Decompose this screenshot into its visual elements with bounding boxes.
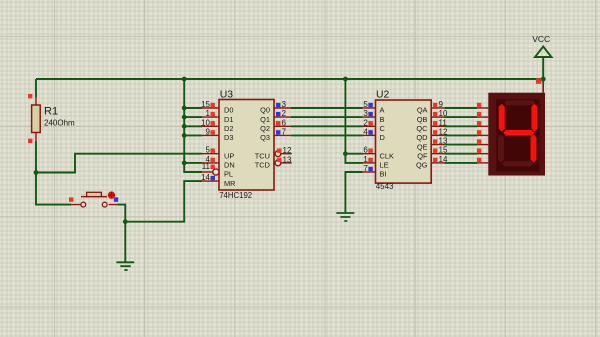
svg-text:3: 3 <box>363 109 368 118</box>
U3 pin 6 (Q2) <box>274 118 291 127</box>
U2 pin 9 (QA) <box>431 100 444 109</box>
wire LE branch <box>345 154 362 163</box>
svg-text:12: 12 <box>439 127 448 136</box>
svg-text:1: 1 <box>206 109 211 118</box>
svg-text:4543: 4543 <box>376 182 394 191</box>
U2 pin 10 (QB) <box>431 109 448 118</box>
label U3 <box>220 89 234 100</box>
label U2 <box>376 89 390 100</box>
display segment d (off) <box>502 161 533 166</box>
svg-text:5: 5 <box>363 100 368 109</box>
ground symbol GND2 below BI <box>336 213 354 221</box>
svg-text:QD: QD <box>416 133 427 142</box>
svg-text:1: 1 <box>363 155 368 164</box>
IC U3 74HC192 body <box>219 100 274 191</box>
svg-text:QA: QA <box>417 106 428 115</box>
wire MR to button junction <box>125 181 202 222</box>
svg-text:PL: PL <box>224 170 233 179</box>
svg-text:TCU: TCU <box>255 151 270 160</box>
svg-text:D2: D2 <box>224 124 233 133</box>
node rail-bus junction <box>182 77 187 82</box>
svg-text:6: 6 <box>282 118 287 127</box>
U3 pin 14 (MR) <box>201 173 219 182</box>
wire Q2 to C <box>291 125 363 127</box>
U2 pin 2 (C) <box>363 118 376 127</box>
U3 pin 13 (TCD, inverted) <box>275 155 292 165</box>
node bus-D1 <box>182 115 187 120</box>
svg-text:MR: MR <box>224 179 236 188</box>
svg-text:LE: LE <box>380 161 389 170</box>
wire Q0 to A <box>291 107 363 109</box>
wire QE to display e <box>444 144 477 146</box>
U2 pin 1 (LE) <box>363 155 376 164</box>
svg-text:9: 9 <box>206 127 211 136</box>
svg-text:R1: R1 <box>44 105 58 117</box>
U3 pin 9 (D3) <box>202 127 219 136</box>
display segment e (off) <box>498 134 504 162</box>
svg-text:10: 10 <box>439 109 448 118</box>
display pin a <box>477 103 488 108</box>
value 74HC192 <box>219 191 252 200</box>
svg-text:D3: D3 <box>224 133 233 142</box>
node bus-D3 <box>182 133 187 138</box>
wire data bus vertical from rail to PL <box>184 79 202 172</box>
display segment c (on) <box>531 134 537 162</box>
U2 pin 3 (B) <box>363 109 376 118</box>
U2 pin 6 (CLK) <box>363 146 376 155</box>
svg-text:QF: QF <box>417 151 428 160</box>
svg-text:7: 7 <box>282 127 287 136</box>
svg-text:QG: QG <box>416 161 428 170</box>
U2 pin 12 (QD) <box>431 127 448 136</box>
svg-text:11: 11 <box>202 162 211 171</box>
node CLK-LE junction <box>343 151 348 156</box>
display VCC pin (top) <box>536 78 543 92</box>
svg-text:Q0: Q0 <box>260 106 270 115</box>
svg-text:13: 13 <box>439 137 448 146</box>
wire R1 junction to UP pin <box>36 154 202 173</box>
U3 pin 5 (UP) <box>202 146 219 155</box>
display segment f (on) <box>499 104 505 132</box>
svg-text:DN: DN <box>224 161 235 170</box>
wire branch to DN <box>184 162 202 164</box>
svg-text:14: 14 <box>439 155 448 164</box>
svg-text:74HC192: 74HC192 <box>219 191 252 200</box>
wire QA to display a <box>444 107 477 109</box>
wire R1 top to rail corner <box>35 79 37 97</box>
display pin d <box>477 130 488 135</box>
svg-text:5: 5 <box>206 146 211 155</box>
U3 pin 10 (D2) <box>201 118 219 127</box>
U3 pin 1 (D1) <box>202 109 219 118</box>
wire QF to display f <box>444 153 477 155</box>
wire QD to display d <box>444 134 477 136</box>
svg-text:15: 15 <box>439 146 448 155</box>
svg-text:13: 13 <box>283 155 292 164</box>
node R1 bottom junction <box>34 170 39 175</box>
value 4543 <box>376 182 394 191</box>
svg-text:QB: QB <box>417 115 428 124</box>
node bus-D0 <box>182 106 187 111</box>
svg-text:U2: U2 <box>376 89 390 100</box>
U2 pin 11 (QC) <box>431 118 447 127</box>
wire QG to display g <box>444 162 477 164</box>
wire Q1 to B <box>291 116 363 118</box>
display pin c <box>477 121 488 126</box>
wire BI to ground <box>345 172 362 212</box>
value 240Ohm <box>44 119 75 128</box>
display segment a (off) <box>504 100 535 105</box>
svg-text:15: 15 <box>201 100 210 109</box>
svg-text:TCD: TCD <box>255 161 270 170</box>
wire branch to D1 <box>184 116 202 118</box>
resistor R1 <box>28 94 40 143</box>
wire R1 bottom vertical <box>36 141 71 205</box>
svg-text:UP: UP <box>224 151 234 160</box>
svg-text:2: 2 <box>282 109 287 118</box>
U2 pin 15 (QF) <box>431 146 448 155</box>
wire VCC symbol to rail and display pin <box>542 57 544 84</box>
display pin e <box>477 139 488 144</box>
wire Q3 to D <box>291 134 363 136</box>
U3 pin 2 (Q1) <box>274 109 291 118</box>
IC U2 4543 body <box>376 100 432 183</box>
svg-text:Q1: Q1 <box>260 115 270 124</box>
U2 pin 7 (BI) <box>363 164 376 173</box>
wire branch to D0 <box>184 107 202 109</box>
node button-ground junction <box>123 219 128 224</box>
U3 pin 7 (Q3) <box>274 127 291 136</box>
svg-text:12: 12 <box>283 146 292 155</box>
U3 pin 11 (PL, inverted) <box>202 162 219 175</box>
svg-text:Q3: Q3 <box>260 133 270 142</box>
svg-text:QE: QE <box>417 142 428 151</box>
U2 pin 13 (QE) <box>431 137 448 146</box>
label R1 <box>44 105 58 117</box>
node rail-VCC junction <box>541 77 546 82</box>
svg-text:2: 2 <box>363 118 368 127</box>
svg-text:Q2: Q2 <box>260 124 270 133</box>
svg-text:A: A <box>380 106 385 115</box>
U3 pin 12 (TCU, inverted) <box>275 146 292 156</box>
svg-text:4: 4 <box>363 127 368 136</box>
svg-text:D0: D0 <box>224 106 233 115</box>
svg-text:14: 14 <box>201 173 210 182</box>
U2 pin 14 (QG) <box>431 155 448 164</box>
svg-text:7: 7 <box>363 164 368 173</box>
svg-text:240Ohm: 240Ohm <box>44 119 75 128</box>
node bus-D2 <box>182 124 187 129</box>
display pin b <box>477 112 488 117</box>
svg-text:10: 10 <box>201 118 210 127</box>
svg-text:B: B <box>380 115 385 124</box>
wire branch to D3 <box>184 134 202 136</box>
push button switch <box>69 191 118 207</box>
U2 pin 5 (A) <box>363 100 376 109</box>
wire VCC top rail <box>36 78 543 80</box>
wire branch to D2 <box>184 125 202 127</box>
7-segment display body <box>488 93 545 176</box>
power symbol VCC <box>532 34 551 57</box>
node bus-DN <box>182 161 187 166</box>
display pin f <box>477 149 488 154</box>
display segment g (on) <box>503 130 534 136</box>
svg-text:QC: QC <box>416 124 428 133</box>
U3 pin 3 (Q0) <box>274 100 291 109</box>
wire QC to display c <box>444 125 477 127</box>
display pin g <box>477 158 488 163</box>
wire button right to junction and ground <box>117 205 125 262</box>
svg-text:3: 3 <box>282 100 287 109</box>
svg-text:6: 6 <box>363 146 368 155</box>
wire QB to display b <box>444 116 477 118</box>
wire CLK vertical from rail <box>345 79 362 154</box>
svg-text:C: C <box>380 124 386 133</box>
svg-text:D: D <box>380 133 385 142</box>
svg-text:D1: D1 <box>224 115 233 124</box>
U3 pin 15 (D0) <box>201 100 219 109</box>
U3 pin 4 (DN) <box>202 155 219 164</box>
node rail-CLK junction <box>343 77 348 82</box>
display segment b (on) <box>531 104 537 132</box>
U2 pin 4 (D) <box>363 127 376 136</box>
svg-text:CLK: CLK <box>380 151 394 160</box>
svg-text:VCC: VCC <box>532 34 550 44</box>
svg-text:9: 9 <box>439 100 444 109</box>
ground symbol GND1 below button <box>116 262 134 270</box>
svg-text:BI: BI <box>380 170 387 179</box>
svg-text:11: 11 <box>439 118 448 127</box>
svg-text:U3: U3 <box>220 89 234 100</box>
